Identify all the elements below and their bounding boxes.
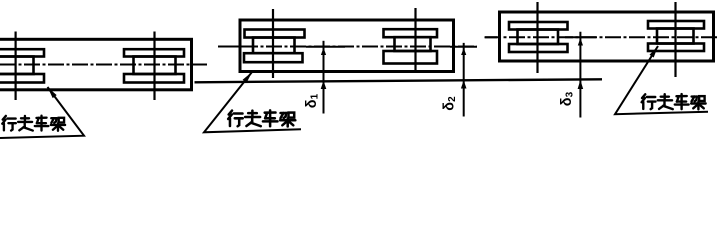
wheel unit A3U1 bottom flange [509,44,568,52]
dimension line d2 [463,43,465,117]
centerline A2 solid segment left [218,46,247,48]
horizontal centerline A2 (dash-dot) [218,46,477,48]
centerline A2 solid segment at d2 [450,46,477,48]
horizontal centerline A1 (dash-dot) [0,64,207,66]
wheel unit A2U1 web [253,38,295,54]
wheel unit A1U1 web [0,57,34,75]
label text 行走车架 (2) [228,110,295,126]
wheel unit A1U2 web [134,57,176,75]
wheel unit A1U1 bottom flange [0,74,44,83]
arrowhead L1 [48,87,57,98]
vertical centerline A1U1 [15,32,17,101]
arrowhead d1 lower [321,81,327,89]
vertical centerline A3U2 [674,2,676,77]
wheel unit A1U1 top flange [0,49,44,56]
wheel unit A2U2 web [395,37,431,51]
arrowhead d1 upper [321,48,326,56]
wheel unit A3U2 top flange [648,21,704,29]
label text 行走车架 (1) [2,116,65,131]
arrowhead d3 lower [578,80,584,89]
dimension line d1 [323,41,325,114]
arrowhead L3 [650,46,659,58]
dimension line d3 [579,32,581,118]
centerline A2 solid segment at d1 [306,46,345,48]
vertical centerline A3U1 [536,2,538,73]
centerline A3 solid segment at d3 [565,36,596,38]
wheel unit A1U2 top flange [124,49,184,56]
wheel unit A3U2 bottom flange [648,44,704,52]
vertical centerline A2U2 [414,8,416,73]
wheel unit A2U1 top flange [245,30,305,38]
wheel unit A3U1 top flange [509,22,568,30]
label text 行走车架 (3) [642,94,706,109]
wheel unit A2U2 bottom flange [384,51,438,64]
arrowhead d3 upper [578,38,583,46]
frame A3 outer rectangle [500,12,714,61]
horizontal centerline A3 (dash-dot) [485,36,718,38]
wheel unit A3U1 web [518,30,559,45]
centerline A3 dash left end [485,36,498,38]
leader line L2 [204,72,301,132]
leader line L3 [615,46,708,114]
wheel unit A2U2 top flange [384,29,438,37]
frame A2 outer rectangle [240,20,454,72]
frame A1 outer rectangle [0,39,192,90]
arrowhead d2 upper [461,48,466,55]
wheel unit A2U1 bottom flange [244,53,303,62]
vertical centerline A1U2 [153,32,155,101]
arrowhead d2 lower [461,80,467,88]
arrowhead L2 [243,72,252,83]
datum line [195,79,603,82]
leader line L1 [0,87,84,138]
wheel unit A1U2 bottom flange [124,74,184,83]
vertical centerline A2U1 [272,9,274,78]
wheel unit A3U2 web [657,29,694,44]
